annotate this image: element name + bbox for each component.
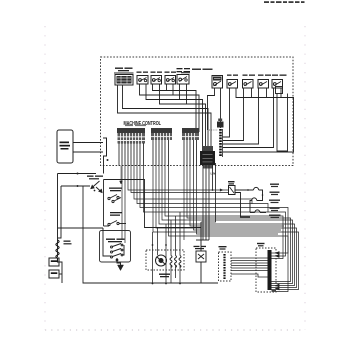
timer switch T1 [115,75,133,86]
pressure switch container [100,231,131,263]
wire mesh G1 high bends [122,166,288,256]
door switch [91,181,102,193]
main connector CN6 [256,248,276,292]
switch S3 label [151,72,163,73]
wire power cord to control [73,143,103,153]
fuse F1 [229,186,236,195]
terminal WHT [49,258,59,266]
arrow down node [120,166,123,184]
wire L1 N drops [201,163,216,240]
thermostat TH3 [250,210,266,213]
wire mesh G2 staircase [153,166,299,292]
pressure switch label [106,239,125,243]
noise filter coil [56,240,60,262]
pressure switch contacts [103,228,124,258]
wash temp switch label [194,246,200,247]
door switch label [87,176,103,180]
terminal BLK [49,270,59,278]
motor connector label [219,246,227,247]
power cord box [57,130,73,163]
motor M1 [156,255,167,266]
node L1 N cluster [200,146,215,176]
wire right group right legs elbows [221,88,274,148]
buzzer BZ [209,119,224,131]
switch S4 label [165,72,177,73]
node dot J1 [107,159,109,161]
switch S6 label [227,75,238,76]
node arrow at fuse [220,189,224,192]
coil label [64,241,71,242]
connector group CN3 labels [182,128,199,140]
wire CN3 pins [184,140,197,166]
valve label column [269,184,281,219]
switch S7 label [243,75,256,76]
switch S2 [137,76,148,85]
switch S4 [165,76,176,85]
capacitor U-loop [276,87,288,152]
wire CN2 pins [153,140,169,166]
wire timer legs [118,85,212,151]
wire right group left legs rail [208,88,294,152]
node dots left [77,173,96,192]
node dot at L1N drop [212,189,214,191]
page dotted border bottom [45,329,305,331]
connector strip CN4 [221,129,223,157]
motor label [159,274,170,278]
wire main connector right top [276,252,279,290]
wire terminals [59,262,62,283]
wire motor bundle [231,258,268,277]
wire motor verticals [153,212,181,284]
switch S6 [227,80,238,89]
switch S3 [151,76,162,85]
motor dashed box [146,250,184,270]
machine control dashed box [101,57,294,166]
motor start winding [170,256,181,268]
wire left rail L1 [58,156,104,257]
thermostat TH2 [250,198,257,213]
node dots motor [152,244,181,284]
wire left staircase bundle [140,84,206,151]
main connector label [257,243,265,244]
lid lock sw label [110,212,122,216]
ground wire [116,258,120,265]
switch S7 [243,80,254,89]
relay K1 [212,76,223,89]
relay K1 small label [192,69,201,71]
wire fuse out [235,190,254,217]
thermostat TH1 [254,187,263,200]
switch S9 label [272,75,287,76]
lid lock switch [104,221,127,227]
fuse F1 label [228,181,235,182]
timer switch T1 label [114,68,134,74]
switch S8 [258,80,269,89]
switch S5 label [177,68,191,72]
water temp sw label [109,188,122,192]
wire door sw to mesh [58,180,219,284]
wire main connector right bottom [272,290,277,292]
wash temp switch [196,222,209,283]
connector J1 bracket [103,138,107,156]
wire mesh G3 staircase [184,166,291,282]
switch S5 [177,75,189,85]
svg-text:MACHINE CONTROL: MACHINE CONTROL [124,121,162,127]
switch S2 label [137,72,149,73]
node dots cluster [247,189,263,196]
page dotted border left [44,26,46,330]
page dotted border right [304,26,306,330]
switch S8 label [258,75,271,76]
title text top right [264,1,305,3]
switch S9 [272,80,283,89]
connector group CN1 labels [117,125,146,144]
lid lock lamp [108,195,121,203]
motor connector CN5 [219,252,232,281]
wire CN1 pins [119,143,144,166]
connector group CN2 labels [151,128,172,140]
ground [118,265,124,271]
